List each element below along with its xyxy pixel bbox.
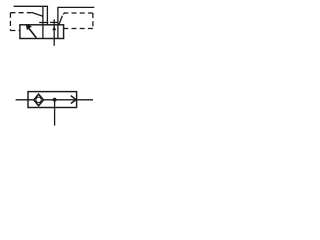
wire outlet line xyxy=(44,99,75,101)
wire inlet line xyxy=(16,99,34,101)
wire branch down xyxy=(54,100,56,126)
node T-bar left xyxy=(39,22,48,24)
wire right pilot line with corner down xyxy=(58,7,94,38)
wire left pilot line with corner down xyxy=(14,6,48,25)
node flow arrow right chevron xyxy=(71,96,76,104)
node T-bar right xyxy=(50,21,58,23)
enclosure dashed box left xyxy=(10,13,31,31)
valve V1 body xyxy=(20,25,64,39)
wire right port xyxy=(77,99,93,101)
check valve CV1 ball xyxy=(36,97,41,102)
wire port line A through body (divider) xyxy=(42,6,44,38)
valve V2 body xyxy=(28,92,77,108)
wire port line B with stub below body xyxy=(53,19,55,46)
check valve CV1 diamond xyxy=(34,94,44,106)
wire diagonal left xyxy=(32,12,43,16)
enclosure dashed box right xyxy=(64,13,93,29)
node arrow up on B xyxy=(52,26,56,31)
node junction dot xyxy=(53,98,57,102)
wire diagonal right xyxy=(59,13,65,25)
node flow arrow in left cell xyxy=(29,28,37,38)
